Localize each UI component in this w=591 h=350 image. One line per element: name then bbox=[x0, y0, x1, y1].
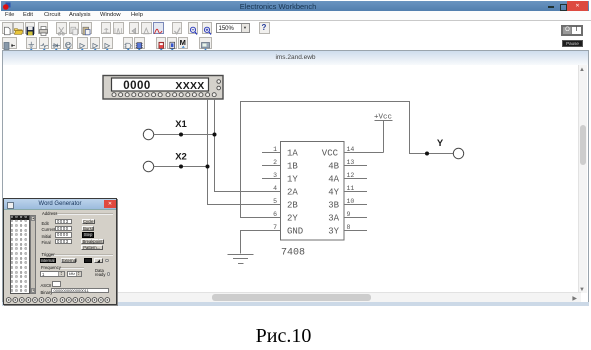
svg-text:1Y: 1Y bbox=[287, 175, 298, 185]
svg-text:10: 10 bbox=[347, 198, 355, 205]
svg-text:Y: Y bbox=[437, 138, 444, 149]
svg-text:1A: 1A bbox=[287, 149, 298, 159]
svg-text:1B: 1B bbox=[287, 162, 298, 172]
svg-text:14: 14 bbox=[347, 146, 355, 153]
svg-text:2B: 2B bbox=[287, 201, 298, 211]
svg-text:+Vcc: +Vcc bbox=[374, 114, 392, 122]
svg-text:12: 12 bbox=[347, 172, 355, 179]
svg-text:13: 13 bbox=[347, 159, 355, 166]
svg-text:3Y: 3Y bbox=[328, 227, 339, 237]
svg-text:X2: X2 bbox=[175, 152, 187, 163]
svg-text:GND: GND bbox=[287, 227, 303, 237]
svg-text:9: 9 bbox=[347, 211, 351, 218]
svg-text:4A: 4A bbox=[328, 175, 339, 185]
svg-text:X1: X1 bbox=[175, 119, 187, 130]
svg-text:2: 2 bbox=[273, 159, 277, 166]
svg-text:XXXX: XXXX bbox=[175, 80, 204, 92]
svg-text:0000: 0000 bbox=[123, 80, 151, 92]
svg-text:4: 4 bbox=[273, 185, 277, 192]
svg-text:2Y: 2Y bbox=[287, 214, 298, 224]
svg-text:8: 8 bbox=[347, 224, 351, 231]
svg-text:VCC: VCC bbox=[322, 149, 339, 159]
svg-text:7: 7 bbox=[273, 224, 277, 231]
svg-text:3B: 3B bbox=[328, 201, 339, 211]
svg-text:2A: 2A bbox=[287, 188, 298, 198]
svg-text:11: 11 bbox=[347, 185, 355, 192]
svg-text:7408: 7408 bbox=[281, 248, 305, 259]
svg-text:1: 1 bbox=[273, 146, 277, 153]
svg-text:3A: 3A bbox=[328, 214, 339, 224]
svg-text:3: 3 bbox=[273, 172, 277, 179]
svg-text:4B: 4B bbox=[328, 162, 339, 172]
svg-text:5: 5 bbox=[273, 198, 277, 205]
svg-text:6: 6 bbox=[273, 211, 277, 218]
svg-text:4Y: 4Y bbox=[328, 188, 339, 198]
